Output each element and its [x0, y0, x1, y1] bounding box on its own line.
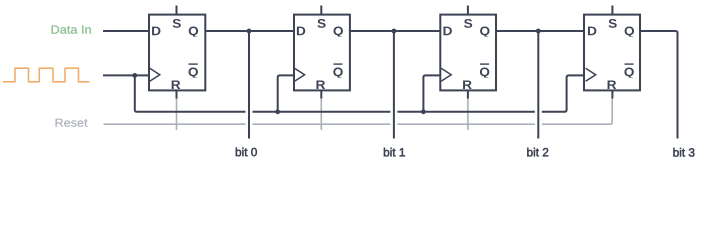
reset pin wire FF2 [320, 96, 322, 130]
flip-flop U3 box [440, 15, 496, 91]
clock waveform [3, 68, 90, 82]
junction bit 1 [392, 29, 397, 34]
flip-flop U2 pins and labels (D,S,Q,Qbar,R) [295, 6, 343, 99]
wire Q3 to D4 [495, 30, 584, 32]
wire bit 1 drop [393, 31, 395, 139]
clock bus wire [135, 75, 585, 111]
junction clock bus FF2 [275, 109, 280, 114]
clock riser wire FF2 [278, 75, 295, 111]
reset bus wire [104, 96, 613, 124]
label bit 2 [527, 148, 548, 157]
clock riser wire FF3 [423, 75, 440, 111]
flip-flop U4 box [584, 15, 640, 91]
wire clock to FF1 [103, 74, 150, 76]
junction bit 2 [536, 29, 541, 34]
reset pin wire FF1 [176, 96, 178, 130]
label Reset [56, 119, 88, 127]
flip-flop U3 pins and labels (D,S,Q,Qbar,R) [441, 6, 489, 99]
wire Q1 to D2 [205, 30, 295, 32]
junction clock at FF1 [132, 73, 137, 78]
label bit 1 [384, 148, 405, 157]
flip-flop U1 pins and labels (D,S,Q,Qbar,R) [150, 6, 198, 99]
wire Data In to FF1 D [103, 30, 150, 32]
wire bit 2 drop [537, 31, 539, 139]
flip-flop U2 box [294, 15, 350, 91]
junction bit 0 [247, 29, 252, 34]
label Data In [52, 25, 91, 33]
junction clock bus FF3 [421, 109, 426, 114]
reset pin wire FF3 [467, 96, 469, 130]
wire Q4 to bit 3 [639, 31, 677, 139]
label bit 3 [673, 148, 694, 157]
label bit 0 [236, 148, 257, 157]
flip-flop U4 pins and labels (D,S,Q,Qbar,R) [586, 6, 634, 99]
wire Q2 to D3 [349, 30, 441, 32]
flip-flop U1 box [149, 15, 205, 91]
wire bit 0 drop [248, 31, 250, 139]
